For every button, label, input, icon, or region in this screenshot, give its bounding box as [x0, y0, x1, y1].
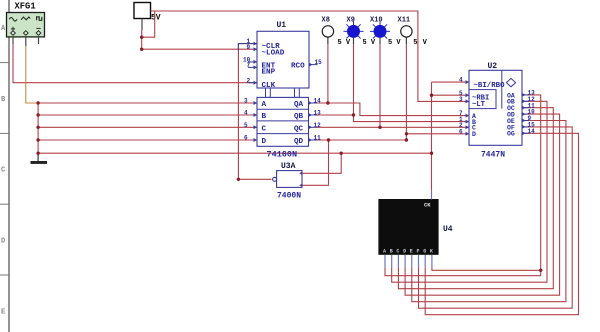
wire QC to U2 C	[317, 126, 470, 128]
wire X11 node to U2 D	[406, 133, 469, 135]
probe X11	[398, 17, 428, 47]
svg-text:74160N: 74160N	[267, 150, 298, 160]
U2 pin 9 OE	[522, 115, 532, 122]
U2 pin 12 OB	[522, 96, 535, 103]
svg-text:3: 3	[244, 98, 248, 105]
junction NAND output to ~CLR	[237, 178, 240, 181]
U1 pin 11 QD	[309, 135, 322, 142]
U1 pin 15 RCO	[309, 59, 322, 66]
wire X9 stem	[353, 37, 355, 115]
U2 pin 15 OF	[522, 122, 535, 129]
svg-text:7: 7	[247, 62, 251, 69]
U1 pin 10	[243, 57, 257, 64]
wire to U2 ~RBI	[432, 94, 470, 96]
svg-text:X8: X8	[322, 17, 330, 25]
svg-text:U2: U2	[488, 62, 498, 71]
svg-text:3: 3	[459, 96, 463, 103]
U1 pin 14 QA	[309, 98, 322, 105]
svg-text:15: 15	[315, 59, 323, 66]
wire X11 stem	[405, 37, 407, 140]
wire NAND input 2 from QD	[302, 140, 329, 185]
U1 pin 5	[244, 122, 257, 129]
junction node C on ground bus	[36, 126, 39, 129]
wire XFG1 + to CLK	[13, 44, 257, 83]
wire OD loop to display D	[405, 114, 559, 295]
svg-text:6: 6	[459, 128, 463, 135]
svg-text:~BI/RBO: ~BI/RBO	[474, 82, 506, 90]
U4 bottom pins	[385, 255, 432, 267]
svg-text:14: 14	[528, 128, 536, 135]
svg-text:D: D	[262, 138, 267, 146]
counter U1	[257, 21, 309, 146]
junction X8 on QA net	[326, 101, 329, 104]
wire OG loop to display G	[425, 133, 578, 314]
U2 pin 13 OA	[522, 90, 535, 97]
svg-text:7400N: 7400N	[277, 192, 301, 201]
svg-text:OG: OG	[507, 131, 515, 138]
U1 pin 4	[244, 110, 257, 117]
wire to U1 C	[38, 126, 257, 128]
5V power source V1	[134, 3, 161, 31]
svg-text:11: 11	[314, 135, 322, 142]
svg-text:D: D	[1, 238, 5, 246]
wire OE loop to display E	[412, 121, 566, 302]
svg-text:A: A	[262, 101, 267, 109]
junction X10 on QC net	[378, 126, 381, 129]
probe X8	[322, 17, 351, 47]
svg-text:B: B	[262, 113, 267, 121]
svg-text:4: 4	[244, 110, 248, 117]
wire QB to U2 B	[317, 115, 470, 122]
svg-text:12: 12	[314, 122, 322, 129]
wire to U1 D	[38, 139, 257, 141]
junction node B on ground bus	[36, 113, 39, 116]
svg-text:E: E	[410, 249, 413, 255]
svg-text:5: 5	[413, 39, 417, 47]
U1 pin 13 QB	[309, 110, 322, 117]
sheet border line	[0, 0, 9, 332]
svg-text:C: C	[1, 167, 5, 175]
wire XFG1 common (orange)	[26, 46, 38, 103]
wire OC loop to display C	[398, 108, 553, 289]
svg-text:K: K	[430, 249, 433, 255]
svg-text:5V: 5V	[151, 14, 161, 23]
U2 pin 4	[459, 77, 469, 84]
svg-text:B: B	[390, 249, 393, 255]
svg-text:5 V: 5 V	[338, 39, 351, 47]
svg-text:XFG1: XFG1	[15, 2, 36, 12]
U2 output stubs	[522, 95, 529, 133]
svg-text:~LT: ~LT	[472, 101, 486, 109]
junction U2 ~RBI branch	[430, 94, 433, 97]
NAND gate U3A	[273, 162, 302, 187]
svg-text:D: D	[403, 249, 406, 255]
probe X9 (lit)	[344, 17, 376, 47]
U1 pin 2 stub (dark)	[249, 82, 257, 84]
U2 pin 14 OG	[522, 128, 535, 135]
ground	[31, 153, 48, 164]
probe stem stubs	[328, 37, 407, 44]
svg-text:5 V: 5 V	[363, 39, 376, 47]
U2 pin 3	[459, 96, 469, 103]
wire NAND output to ~CLR	[238, 44, 271, 180]
junction X11 on QD net upper	[405, 132, 408, 135]
svg-text:A: A	[383, 249, 386, 255]
wire 5V source down to ~LOAD	[142, 30, 257, 49]
junction NAND input on ground line	[340, 152, 343, 155]
svg-text:G: G	[423, 249, 426, 255]
junction at 5V source pin	[140, 36, 143, 39]
svg-text:F: F	[417, 249, 420, 255]
svg-text:X10: X10	[370, 17, 383, 25]
U2 pin 10 OD	[522, 109, 535, 116]
U2 pin 6	[459, 128, 469, 135]
svg-text:RCO: RCO	[291, 63, 305, 71]
junction CK net on ground line	[430, 152, 433, 155]
wire QD	[317, 139, 407, 141]
U1 pin 1 stub (dark)	[238, 44, 257, 51]
wire ground bus vertical	[37, 103, 39, 153]
svg-text:ENP: ENP	[262, 69, 276, 77]
wire OA loop to display A	[385, 95, 541, 276]
svg-text:5 V: 5 V	[388, 39, 401, 47]
svg-text:U1: U1	[277, 21, 287, 30]
wire ground line to CK net	[38, 152, 431, 154]
U1 pin 2	[247, 77, 258, 84]
svg-text:C: C	[396, 249, 399, 255]
U1 output stubs	[309, 103, 318, 140]
wire to U2 ~BI/RBO	[432, 81, 470, 83]
junction node A on ground bus	[36, 101, 39, 104]
U2 pin 2	[459, 122, 469, 129]
wire 5V rail to U2 ~LT	[151, 11, 470, 101]
wire to U1 B	[38, 114, 257, 116]
U1 pin 7	[247, 62, 258, 69]
wire X10 stem	[379, 37, 381, 127]
U1 pin 3	[244, 98, 257, 105]
wire to U1 A	[38, 102, 257, 104]
svg-text:QD: QD	[294, 138, 304, 146]
wire 5V hook to source pin	[142, 11, 155, 37]
svg-text:CLK: CLK	[262, 82, 276, 90]
svg-text:13: 13	[314, 110, 322, 117]
svg-text:E: E	[1, 309, 5, 317]
function generator XFG1	[7, 2, 45, 46]
svg-text:5: 5	[244, 122, 248, 129]
svg-text:14: 14	[314, 98, 322, 105]
svg-text:X11: X11	[398, 17, 411, 25]
svg-text:QB: QB	[294, 113, 304, 121]
svg-text:~LOAD: ~LOAD	[262, 50, 285, 58]
U2 pin 11 OC	[522, 102, 535, 109]
decoder U2	[469, 62, 522, 145]
junction X9 on QB net	[352, 113, 355, 116]
svg-text:7447N: 7447N	[481, 151, 505, 160]
probe X10 (lit)	[370, 17, 401, 47]
wire OB loop to display B	[392, 101, 547, 282]
svg-text:6: 6	[244, 135, 248, 142]
7-seg display U4	[378, 199, 438, 255]
svg-text:QA: QA	[294, 101, 304, 109]
U1 pin 1	[247, 38, 258, 45]
wire display K pin	[432, 267, 541, 270]
svg-text:CK: CK	[424, 202, 431, 209]
wire OF loop to display F	[419, 127, 573, 308]
junction display K line	[539, 269, 542, 272]
svg-text:D: D	[472, 131, 476, 138]
svg-text:QC: QC	[294, 125, 304, 133]
junction X11 on QD net lower	[405, 138, 408, 141]
junction ground bus bottom	[36, 152, 39, 155]
U1 pin 6	[244, 135, 257, 142]
junction NAND input on QD	[327, 138, 330, 141]
svg-text:9: 9	[247, 44, 251, 51]
U2 pin 1	[459, 116, 469, 123]
junction 5V to ~LOAD corner	[140, 48, 143, 51]
U1 pin 9	[247, 44, 258, 51]
svg-text:U3A: U3A	[281, 162, 296, 171]
U2 pin 7	[459, 110, 469, 117]
wire QA to U2 A	[317, 103, 470, 116]
svg-text:U4: U4	[443, 225, 453, 234]
U1 pin 12 QC	[309, 122, 322, 129]
svg-text:2: 2	[247, 77, 251, 84]
wire X8 stem	[327, 37, 329, 103]
svg-text:4: 4	[459, 77, 463, 84]
wire NAND input 1 from ground line	[302, 153, 341, 173]
svg-text:C: C	[262, 125, 267, 133]
U2 pin 5	[459, 90, 469, 97]
U4 top pin	[431, 191, 433, 200]
junction node D on ground bus	[36, 138, 39, 141]
wire CK net vertical	[431, 82, 433, 191]
